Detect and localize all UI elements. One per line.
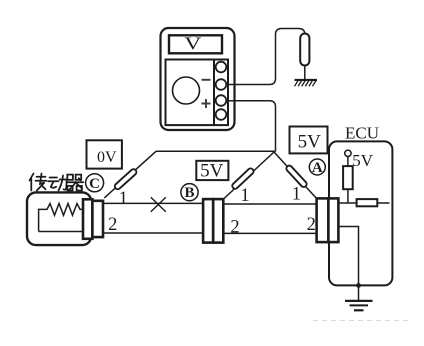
svg-text:C: C bbox=[89, 176, 100, 192]
svg-text:1: 1 bbox=[240, 186, 249, 206]
svg-text:5V: 5V bbox=[200, 161, 224, 182]
svg-text:B: B bbox=[184, 185, 194, 201]
svg-text:0V: 0V bbox=[97, 149, 117, 166]
svg-text:5V: 5V bbox=[298, 132, 322, 153]
svg-text:ECU: ECU bbox=[345, 124, 379, 143]
svg-text:1: 1 bbox=[292, 185, 301, 205]
svg-text:A: A bbox=[312, 160, 323, 176]
svg-text:2: 2 bbox=[108, 215, 117, 235]
svg-text:2: 2 bbox=[230, 218, 239, 238]
svg-text:2: 2 bbox=[307, 215, 316, 235]
svg-text:1: 1 bbox=[119, 189, 128, 209]
svg-text:V: V bbox=[184, 33, 201, 54]
svg-text:5V: 5V bbox=[352, 151, 374, 170]
